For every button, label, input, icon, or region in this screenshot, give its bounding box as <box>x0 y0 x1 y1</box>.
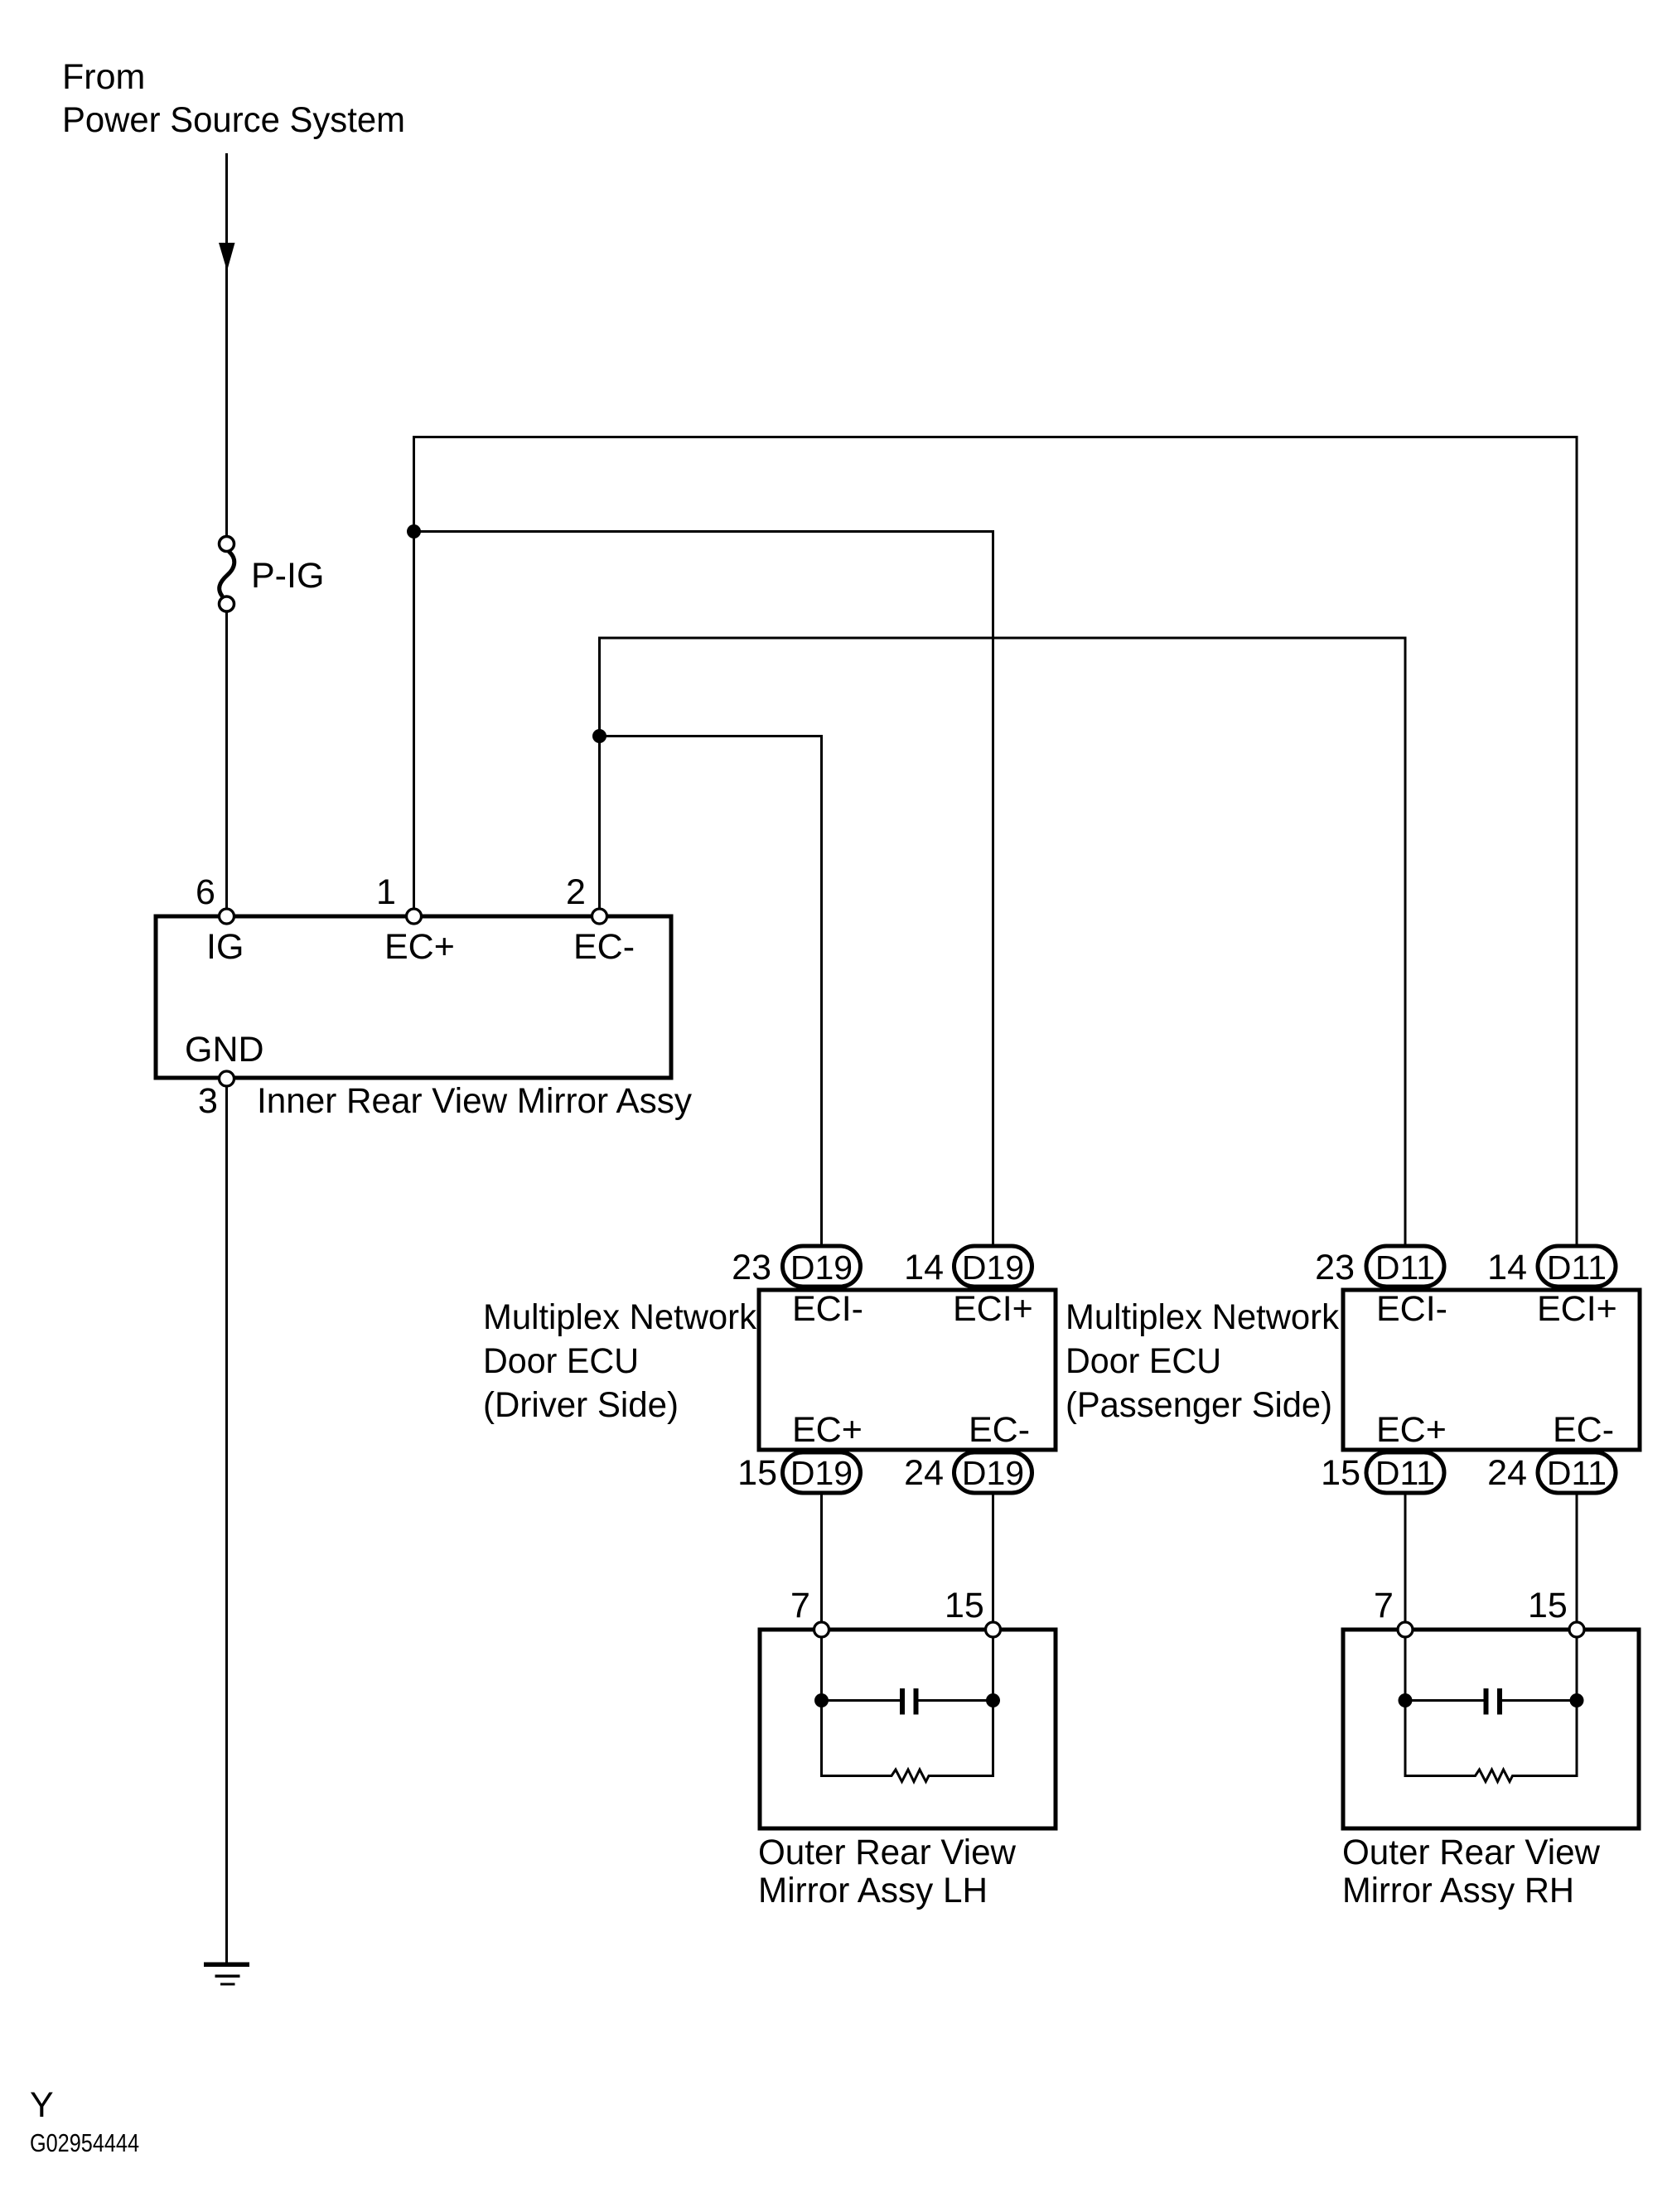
pin 3 terminal <box>220 1071 234 1086</box>
pin 1 terminal <box>407 909 422 924</box>
svg-text:IG: IG <box>206 927 244 967</box>
svg-text:Mirror Assy LH: Mirror Assy LH <box>758 1871 988 1910</box>
label Multiplex Network Door ECU (Passenger Side) <box>1066 1297 1339 1425</box>
box Outer Rear View Mirror Assy LH <box>760 1630 1056 1828</box>
label Outer Rear View Mirror Assy RH <box>1342 1833 1601 1910</box>
svg-text:Outer Rear View: Outer Rear View <box>758 1833 1017 1872</box>
pin 2 terminal <box>592 909 607 924</box>
wire D19 pin 24 down to LH mirror pin 15 <box>992 1495 994 1623</box>
svg-text:15: 15 <box>1528 1586 1568 1625</box>
svg-text:23: 23 <box>732 1248 771 1287</box>
wire vertical x=1696 down to D11 pin 23 <box>1404 637 1407 1245</box>
LH pin 15 terminal <box>986 1622 1001 1637</box>
svg-text:7: 7 <box>790 1586 810 1625</box>
svg-text:ECI+: ECI+ <box>1537 1289 1617 1329</box>
svg-text:Door ECU: Door ECU <box>483 1341 639 1381</box>
LH internal wire pin15 branch <box>992 1638 994 1778</box>
RH resistor bottom loop <box>1405 1770 1577 1782</box>
RH internal wire pin15 branch <box>1576 1638 1578 1778</box>
svg-text:G02954444: G02954444 <box>30 2128 139 2157</box>
RH pin 7 terminal <box>1398 1622 1413 1637</box>
svg-text:P-IG: P-IG <box>251 556 324 596</box>
arrowhead on power wire <box>219 243 235 271</box>
wire horizontal y=641.5 to driver ECU pin 14 <box>414 530 993 533</box>
svg-text:D11: D11 <box>1375 1454 1435 1492</box>
svg-text:1: 1 <box>376 872 396 912</box>
label From Power Source System <box>62 57 405 140</box>
svg-text:14: 14 <box>904 1248 944 1287</box>
svg-text:Y: Y <box>30 2085 54 2125</box>
svg-text:15: 15 <box>945 1586 984 1625</box>
box Inner Rear View Mirror Assy <box>156 916 671 1078</box>
svg-text:24: 24 <box>904 1453 944 1493</box>
svg-text:Inner Rear View Mirror Assy: Inner Rear View Mirror Assy <box>257 1081 692 1121</box>
svg-text:D19: D19 <box>790 1454 853 1492</box>
wire vertical x=1903 down to D11 pin 14 <box>1576 436 1578 1244</box>
svg-text:EC+: EC+ <box>1376 1410 1447 1450</box>
svg-text:6: 6 <box>196 872 215 912</box>
svg-text:(Passenger Side): (Passenger Side) <box>1066 1385 1332 1425</box>
svg-text:GND: GND <box>185 1030 264 1070</box>
LH capacitor leads <box>822 1699 901 1702</box>
wire EC- riser x=723.5 <box>598 638 601 909</box>
wire horizontal y=770 to passenger ECU pin 23 <box>598 637 1405 640</box>
svg-text:EC-: EC- <box>573 927 635 967</box>
svg-text:D19: D19 <box>962 1248 1024 1287</box>
connector oval D11 pin 15 <box>1366 1452 1444 1493</box>
LH resistor bottom loop <box>822 1770 993 1782</box>
RH junction left <box>1399 1693 1413 1707</box>
connector oval D19 pin 23 <box>783 1246 861 1287</box>
pin 6 terminal <box>220 909 234 924</box>
box Outer Rear View Mirror Assy RH <box>1343 1630 1639 1828</box>
fuse P-IG element <box>220 552 234 597</box>
svg-text:24: 24 <box>1487 1453 1527 1493</box>
svg-text:From: From <box>62 57 145 97</box>
connector oval D11 pin 24 <box>1538 1452 1616 1493</box>
wire GND pin 3 down to ground <box>225 1086 228 1964</box>
RH pin 15 terminal <box>1569 1622 1584 1637</box>
svg-text:D11: D11 <box>1375 1248 1435 1287</box>
wire vertical x=991.5 down to D19 pin 23 <box>820 735 823 1244</box>
svg-text:15: 15 <box>737 1453 777 1493</box>
wire fuse to IG pin 6 <box>225 612 228 910</box>
svg-text:Multiplex Network: Multiplex Network <box>1066 1297 1339 1337</box>
wire EC+ riser x=499.5 <box>413 437 415 910</box>
connector oval D11 pin 14 <box>1538 1246 1616 1287</box>
svg-text:Outer Rear View: Outer Rear View <box>1342 1833 1601 1872</box>
RH capacitor plates <box>1484 1688 1489 1715</box>
RH internal wire pin7 branch <box>1404 1638 1407 1778</box>
wire D19 pin 15 down to LH mirror pin 7 <box>820 1495 823 1623</box>
svg-text:14: 14 <box>1487 1248 1527 1287</box>
svg-text:EC+: EC+ <box>792 1410 863 1450</box>
label Multiplex Network Door ECU (Driver Side) <box>483 1297 756 1425</box>
svg-text:Door ECU: Door ECU <box>1066 1341 1221 1381</box>
wire D11 pin 15 down to RH mirror pin 7 <box>1404 1495 1407 1623</box>
wire from power source down to fuse <box>225 153 228 536</box>
svg-text:(Driver Side): (Driver Side) <box>483 1385 679 1425</box>
junction on EC- riser <box>592 729 606 743</box>
svg-text:Multiplex Network: Multiplex Network <box>483 1297 756 1337</box>
box Multiplex Network Door ECU driver side <box>759 1290 1056 1450</box>
LH capacitor plates <box>900 1688 905 1715</box>
connector oval D11 pin 23 <box>1366 1246 1444 1287</box>
svg-text:7: 7 <box>1374 1586 1394 1625</box>
RH capacitor leads <box>1405 1699 1484 1702</box>
label Outer Rear View Mirror Assy LH <box>758 1833 1017 1910</box>
svg-text:15: 15 <box>1321 1453 1360 1493</box>
fuse P-IG bottom terminal <box>220 596 234 611</box>
svg-text:Power Source System: Power Source System <box>62 100 405 140</box>
RH junction right <box>1570 1693 1584 1707</box>
connector oval D19 pin 15 <box>783 1452 861 1493</box>
wire vertical x=1198.5 down to D19 pin 14 <box>992 530 994 1244</box>
svg-text:2: 2 <box>566 872 586 912</box>
wire horizontal y=888.5 to driver ECU pin 23 <box>600 735 822 737</box>
svg-text:D19: D19 <box>790 1248 853 1287</box>
svg-text:D11: D11 <box>1547 1454 1607 1492</box>
box Multiplex Network Door ECU passenger side <box>1343 1290 1640 1450</box>
svg-text:Mirror Assy RH: Mirror Assy RH <box>1342 1871 1574 1910</box>
junction on EC+ riser <box>407 524 421 539</box>
svg-text:ECI+: ECI+ <box>953 1289 1033 1329</box>
wire D11 pin 24 down to RH mirror pin 15 <box>1576 1495 1578 1623</box>
LH pin 7 terminal <box>814 1622 829 1637</box>
connector oval D19 pin 14 <box>954 1246 1032 1287</box>
LH internal wire pin7 branch <box>820 1638 823 1778</box>
svg-text:EC-: EC- <box>969 1410 1030 1450</box>
svg-text:3: 3 <box>198 1081 218 1121</box>
svg-text:EC+: EC+ <box>384 927 455 967</box>
svg-text:D19: D19 <box>962 1454 1024 1492</box>
LH junction left <box>814 1693 829 1707</box>
wire top horizontal y=527.5 to passenger ECU pin 14 <box>413 436 1577 438</box>
LH junction right <box>986 1693 1000 1707</box>
svg-text:EC-: EC- <box>1553 1410 1614 1450</box>
svg-text:D11: D11 <box>1547 1248 1607 1287</box>
svg-text:ECI-: ECI- <box>1376 1289 1447 1329</box>
svg-text:23: 23 <box>1315 1248 1355 1287</box>
ground symbol <box>204 1963 249 1986</box>
fuse P-IG top terminal <box>220 537 234 552</box>
svg-text:ECI-: ECI- <box>792 1289 863 1329</box>
connector oval D19 pin 24 <box>954 1452 1032 1493</box>
